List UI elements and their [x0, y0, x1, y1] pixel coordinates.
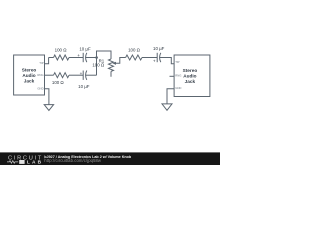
- svg-text:100 Ω: 100 Ω: [128, 47, 141, 52]
- jack J2 pin labels: [175, 60, 181, 90]
- svg-text:Audio: Audio: [22, 73, 35, 78]
- svg-text:+: +: [153, 59, 156, 64]
- ground symbol left: [44, 105, 53, 111]
- svg-text:TIP: TIP: [175, 60, 179, 64]
- svg-text:LAB: LAB: [27, 160, 43, 165]
- wire RNG stub right jack (unconnected): [170, 75, 175, 77]
- pot R1 wiper arrowhead: [112, 62, 116, 65]
- svg-text:10 µF: 10 µF: [78, 84, 90, 89]
- footer bar: [0, 152, 220, 165]
- wire resistor to cap bottom: [69, 74, 83, 76]
- wire resistor to cap top: [69, 57, 83, 59]
- svg-text:+: +: [80, 71, 83, 76]
- cap polarity plus signs: [77, 53, 156, 76]
- junction node dot: [95, 56, 98, 59]
- jack J1 (left stereo audio jack) box: [14, 55, 45, 95]
- footer logo wire-zigzag: [7, 161, 18, 164]
- resistor R2 (top 100 ohm): [54, 55, 70, 60]
- capacitor C3 (10uF stage2): [156, 53, 158, 62]
- svg-text:100 Ω: 100 Ω: [92, 63, 105, 68]
- svg-text:GND: GND: [175, 86, 181, 90]
- svg-text:+: +: [77, 53, 80, 58]
- svg-text:Jack: Jack: [185, 79, 196, 84]
- wire TIP stub left jack: [45, 58, 49, 64]
- resistor R4 (second stage 100 ohm): [126, 55, 142, 60]
- wire GND left jack to ground: [45, 89, 49, 105]
- jack J2 text: [183, 68, 198, 84]
- svg-text:100 Ω: 100 Ω: [55, 48, 68, 53]
- wire junction vertical: [96, 58, 98, 76]
- wire GND right jack to ground: [167, 89, 174, 104]
- capacitor C1 (top 10uF): [82, 53, 84, 62]
- wire top rail left: [49, 57, 54, 59]
- svg-text:RNG: RNG: [175, 73, 181, 77]
- svg-text:10 µF: 10 µF: [153, 46, 165, 51]
- svg-text:Jack: Jack: [24, 78, 35, 83]
- jack J2 (right stereo audio jack) box: [174, 55, 210, 97]
- resistor R3 (bottom 100 ohm): [54, 73, 70, 78]
- jack J1 text: [22, 67, 37, 83]
- jack J1 pin labels: [37, 61, 43, 91]
- svg-text:100 Ω: 100 Ω: [52, 80, 65, 85]
- footer logo square: [19, 160, 24, 164]
- potentiometer R1 body: [109, 59, 114, 71]
- svg-text:RNG: RNG: [37, 73, 43, 77]
- wire RNG rail bottom: [45, 74, 54, 76]
- wire cap to right jack TIP: [160, 58, 174, 64]
- svg-text:Audio: Audio: [183, 73, 196, 78]
- pot R1 bottom stub: [110, 71, 112, 76]
- wire detour to pot top: [97, 51, 112, 59]
- wire resistor to cap stage2: [142, 57, 157, 59]
- capacitor C2 (bottom 10uF): [82, 71, 84, 80]
- svg-text:GND: GND: [37, 86, 43, 90]
- svg-text:Stereo: Stereo: [183, 68, 198, 73]
- svg-text:TIP: TIP: [39, 61, 43, 65]
- svg-text:10 µF: 10 µF: [79, 47, 91, 52]
- svg-text:http://circuitlab.com/c/jpq58w: http://circuitlab.com/c/jpq58w: [44, 158, 102, 163]
- ground symbol right: [162, 104, 172, 110]
- svg-text:Stereo: Stereo: [22, 67, 37, 72]
- pot R1 wiper wire: [115, 58, 126, 64]
- wire cap top to junction: [86, 57, 97, 59]
- wire cap bottom to junction: [86, 74, 97, 76]
